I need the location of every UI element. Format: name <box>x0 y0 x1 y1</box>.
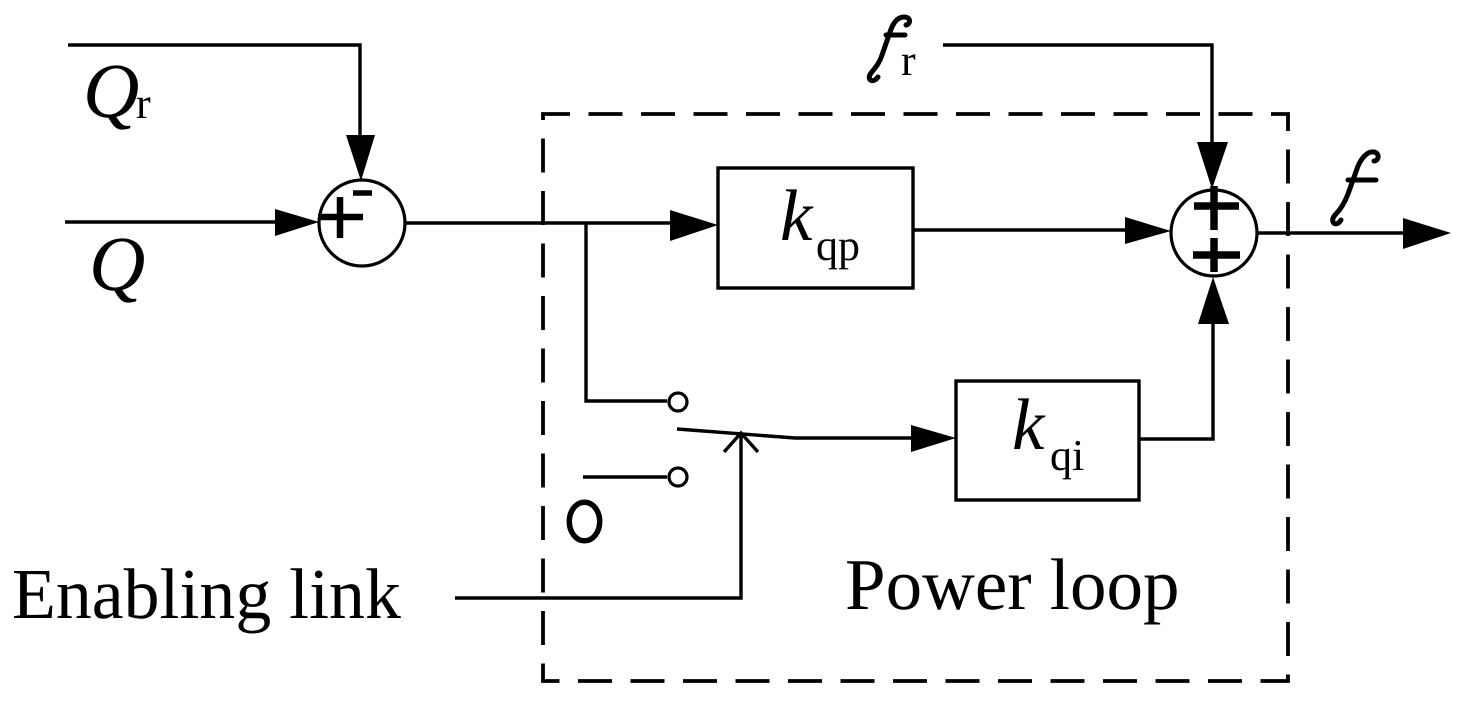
block kqi <box>956 381 1139 500</box>
svg-text:Power loop: Power loop <box>845 544 1180 625</box>
wire Enabling link pointer <box>455 436 741 598</box>
wire to lower contact <box>583 475 667 478</box>
lower plus sign in S2 <box>1193 238 1240 272</box>
arrowhead of Enabling link pointer <box>724 433 758 452</box>
label fr <box>869 17 909 81</box>
wire kqp output to summer S2 <box>913 228 1130 231</box>
arrowhead into block kqp <box>670 210 718 241</box>
svg-text:qp: qp <box>816 221 860 270</box>
upper plus sign in S2 <box>1194 186 1239 230</box>
switch contact bottom <box>669 468 687 486</box>
arrowhead into summer S2 left <box>1125 217 1171 244</box>
wire Qr feedline <box>68 45 360 146</box>
wire S1 output to kqp <box>405 221 675 224</box>
wire lever to kqi <box>795 436 915 439</box>
summing junction S2 <box>1171 190 1257 276</box>
wire fr feedline <box>943 45 1212 150</box>
svg-text:Q: Q <box>89 220 145 307</box>
wire branch down to switch <box>586 223 667 401</box>
block kqp <box>718 168 913 288</box>
dashed box Power loop <box>543 114 1288 681</box>
minus sign in S1 <box>353 190 372 196</box>
svg-text:Enabling link: Enabling link <box>12 554 401 634</box>
plus sign in S1 <box>318 197 363 238</box>
svg-text:Q: Q <box>83 47 139 134</box>
arrowhead into summer S1 top <box>346 135 375 181</box>
wire S2 output <box>1257 231 1410 234</box>
svg-text:r: r <box>136 79 151 128</box>
arrowhead into summer S2 top <box>1197 142 1228 189</box>
switch contact top <box>669 393 687 411</box>
wire Q input <box>65 220 285 223</box>
svg-text:qi: qi <box>1050 431 1084 480</box>
svg-text:k: k <box>1012 384 1046 465</box>
label 0 <box>569 502 599 541</box>
svg-text:k: k <box>780 175 814 256</box>
arrowhead into summer S2 bottom <box>1198 277 1229 324</box>
wire kqi output up into S2 <box>1139 322 1213 439</box>
arrowhead output f <box>1403 218 1451 249</box>
arrowhead into block kqi <box>911 425 956 452</box>
switch lever <box>677 429 795 438</box>
arrowhead into summer S1 left <box>275 209 319 236</box>
svg-text:r: r <box>901 36 916 85</box>
label f <box>1333 152 1378 224</box>
summing junction S1 <box>319 180 405 266</box>
